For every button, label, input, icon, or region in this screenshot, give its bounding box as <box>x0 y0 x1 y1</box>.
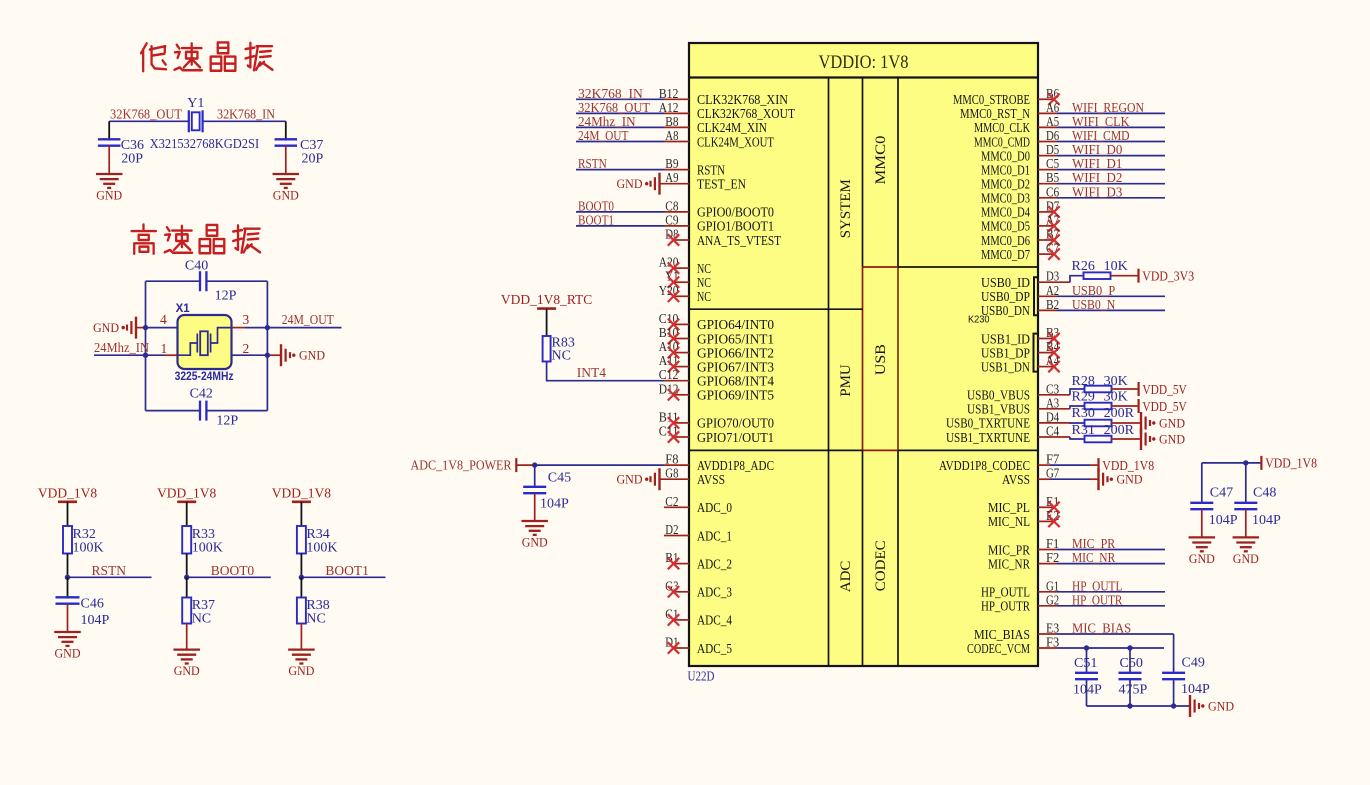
svg-text:C42: C42 <box>190 387 213 402</box>
title text low-speed crystal (Chinese) <box>141 42 272 71</box>
capacitor C37 <box>285 121 287 139</box>
svg-text:TEST_EN: TEST_EN <box>697 177 746 192</box>
wire net WIFI_D0 <box>1057 155 1165 157</box>
svg-text:MMC0_STROBE: MMC0_STROBE <box>953 92 1030 107</box>
pin A7 stub (no connect) <box>1038 225 1054 227</box>
svg-text:MMC0_D1: MMC0_D1 <box>981 162 1030 177</box>
pin B6 stub (no connect) <box>1038 98 1054 100</box>
svg-text:C49: C49 <box>1182 656 1205 671</box>
wire F7 to VDD_1V8 <box>1050 464 1090 466</box>
svg-text:Y1: Y1 <box>187 96 204 111</box>
svg-text:NC: NC <box>697 261 711 276</box>
svg-text:MIC_PL: MIC_PL <box>988 500 1030 515</box>
wire net MIC_NR <box>1057 563 1165 565</box>
ground at R31 <box>1140 428 1142 450</box>
pin D3 stub (USB0_ID) <box>1038 281 1070 283</box>
svg-text:MMC0_D4: MMC0_D4 <box>981 205 1030 220</box>
svg-text:MMC0_CLK: MMC0_CLK <box>974 120 1030 135</box>
pin A8 stub <box>664 141 689 143</box>
svg-text:B8: B8 <box>665 115 678 130</box>
svg-text:GND: GND <box>522 535 548 550</box>
svg-text:3225-24MHz: 3225-24MHz <box>175 371 234 383</box>
pin C6 stub <box>1038 197 1057 199</box>
wire RTC stem <box>546 309 548 336</box>
capacitor C48 <box>1245 463 1247 503</box>
pin B2 stub <box>1038 309 1057 311</box>
pin E1 stub (no connect) <box>1038 506 1054 508</box>
svg-text:WIFI_D1: WIFI_D1 <box>1072 156 1122 171</box>
svg-text:104P: 104P <box>81 613 110 628</box>
svg-text:NC: NC <box>697 275 711 290</box>
pin F8 stub (AVDD1P8_ADC) <box>664 464 689 466</box>
pin A5 stub <box>1038 126 1057 128</box>
svg-text:RSTN: RSTN <box>92 563 127 578</box>
power VDD_5V at R29 <box>1137 399 1139 413</box>
pin A3 stub (R29) <box>1038 408 1070 410</box>
svg-text:C8: C8 <box>665 199 678 214</box>
svg-text:24Mhz_IN: 24Mhz_IN <box>578 114 636 129</box>
svg-text:HP_OUTL: HP_OUTL <box>981 585 1030 600</box>
junction node BOOT0 <box>184 575 189 580</box>
svg-text:VDD_1V8: VDD_1V8 <box>38 485 97 500</box>
power VDD_1V8 at R34 <box>292 500 311 503</box>
svg-text:C9: C9 <box>665 213 678 228</box>
svg-text:GND: GND <box>174 663 200 678</box>
junction at C45 <box>532 462 537 467</box>
wire net WIFI_CMD <box>1057 141 1165 143</box>
pin A20 stub (no connect) <box>673 267 689 269</box>
svg-text:GND: GND <box>93 320 119 335</box>
svg-text:BOOT0: BOOT0 <box>578 198 614 213</box>
svg-text:MMC0_D0: MMC0_D0 <box>981 148 1030 163</box>
svg-text:ADC_4: ADC_4 <box>697 613 732 628</box>
svg-text:CLK24M_XIN: CLK24M_XIN <box>697 120 767 135</box>
svg-text:WIFI_CMD: WIFI_CMD <box>1072 128 1130 143</box>
power VDD_3V3 <box>1137 269 1139 283</box>
junction at C50 top <box>1127 645 1132 650</box>
svg-text:NC: NC <box>697 289 711 304</box>
svg-text:GPIO71/OUT1: GPIO71/OUT1 <box>697 430 774 445</box>
pin F7 stub (AVDD1P8_CODEC) <box>1038 464 1050 466</box>
ground under C36 <box>96 173 123 175</box>
svg-text:MIC_NL: MIC_NL <box>988 514 1030 529</box>
svg-text:GND: GND <box>1189 551 1215 566</box>
pin E2 stub (no connect) <box>1038 520 1054 522</box>
pin G2 stub <box>1038 605 1057 607</box>
resistor R38 NC <box>300 577 302 597</box>
title text high-speed crystal (Chinese) <box>132 224 260 253</box>
svg-text:4: 4 <box>160 312 167 327</box>
resistor R29 <box>1085 403 1112 410</box>
svg-text:GND: GND <box>96 188 122 203</box>
svg-text:USB0_VBUS: USB0_VBUS <box>967 388 1030 403</box>
svg-text:104P: 104P <box>1181 682 1210 697</box>
svg-text:32K768_IN: 32K768_IN <box>578 86 643 101</box>
crystal X1 body <box>178 315 232 369</box>
wire net 24M_OUT <box>576 141 664 143</box>
svg-text:C4: C4 <box>1046 425 1059 440</box>
svg-text:GND: GND <box>299 348 325 363</box>
svg-text:104P: 104P <box>1252 513 1281 528</box>
svg-text:32K768_OUT: 32K768_OUT <box>110 106 183 121</box>
op-amp U22D main IC block body <box>689 43 1038 666</box>
svg-text:GND: GND <box>288 663 314 678</box>
wire R83 to INT4 <box>547 362 548 381</box>
svg-text:R29: R29 <box>1072 390 1095 405</box>
svg-text:GND: GND <box>1159 431 1185 446</box>
svg-text:C40: C40 <box>185 259 208 274</box>
svg-text:24M_OUT: 24M_OUT <box>578 128 629 143</box>
pin D4 stub (R30) <box>1038 422 1070 424</box>
wire stem R34 <box>300 502 302 526</box>
junction node BOOT1 <box>299 575 304 580</box>
resistor R31 <box>1085 436 1112 443</box>
svg-text:C46: C46 <box>81 597 104 612</box>
divider SYSTEM/PMU <box>689 308 863 310</box>
wire right loop vertical <box>266 281 268 410</box>
IC inner column line 2 <box>862 78 864 268</box>
IC inner column line 1 <box>828 78 830 667</box>
svg-text:R28: R28 <box>1072 374 1095 389</box>
pin Y20 stub (no connect) <box>673 295 689 297</box>
pin F3 stub / net CODEC_VCM wire <box>1038 647 1057 649</box>
svg-text:2: 2 <box>243 341 250 356</box>
capacitor C45 <box>534 465 536 487</box>
capacitor C46 <box>67 577 69 597</box>
svg-text:USB0_P: USB0_P <box>1072 283 1115 298</box>
svg-text:GPIO1/BOOT1: GPIO1/BOOT1 <box>697 219 774 234</box>
wire net BOOT0 <box>187 576 271 578</box>
svg-text:100K: 100K <box>306 541 337 556</box>
pin A12 stub <box>664 112 689 114</box>
svg-text:X1: X1 <box>176 303 191 315</box>
svg-text:GND: GND <box>1233 551 1259 566</box>
wire net WIFI_CLK <box>1057 126 1165 128</box>
pin C3 stub (R28) <box>1038 394 1070 396</box>
wire net BOOT0 <box>576 211 664 213</box>
pin B8 stub <box>664 126 689 128</box>
wire net 32K768_OUT (crystal left) <box>109 120 189 122</box>
resistor R28 <box>1085 386 1112 393</box>
junction C49 bottom <box>1171 703 1176 708</box>
divider ADC/CODEC <box>689 449 863 451</box>
svg-text:20P: 20P <box>121 151 143 166</box>
pin B12 stub <box>664 98 689 100</box>
svg-text:ADC_2: ADC_2 <box>697 556 732 571</box>
svg-text:3: 3 <box>243 312 250 327</box>
svg-text:VDD_1V8: VDD_1V8 <box>157 485 216 500</box>
pin C7 stub (no connect) <box>1038 253 1054 255</box>
wire jog R31 <box>1070 437 1085 439</box>
svg-text:ADC_0: ADC_0 <box>697 500 732 515</box>
svg-text:GPIO67/INT3: GPIO67/INT3 <box>697 359 774 374</box>
pin A6 stub <box>1038 112 1057 114</box>
svg-text:1: 1 <box>161 341 168 356</box>
svg-text:RSTN: RSTN <box>697 162 725 177</box>
svg-text:USB1_DP: USB1_DP <box>981 345 1030 360</box>
resistor R33 100K <box>182 526 191 554</box>
wire R31 to GND <box>1111 438 1141 440</box>
svg-text:GPIO70/OUT0: GPIO70/OUT0 <box>697 416 774 431</box>
wire net WIFI_D1 <box>1057 169 1165 171</box>
pin A10 stub (no connect) <box>673 352 689 354</box>
svg-text:PMU: PMU <box>838 364 854 397</box>
svg-text:USB0_TXRTUNE: USB0_TXRTUNE <box>946 416 1030 431</box>
svg-text:VDD_1V8: VDD_1V8 <box>272 485 331 500</box>
svg-text:CLK24M_XOUT: CLK24M_XOUT <box>697 134 775 149</box>
wire MIC_BIAS down to C49 <box>1173 634 1175 673</box>
capacitor C47 <box>1201 463 1203 503</box>
pin B9 stub <box>664 169 689 171</box>
svg-text:100K: 100K <box>73 541 104 556</box>
pin C5 stub <box>1038 169 1057 171</box>
pin B7 stub (no connect) <box>1038 239 1054 241</box>
resistor R37 NC <box>186 577 188 597</box>
svg-text:R30: R30 <box>1072 406 1095 421</box>
svg-text:USB: USB <box>873 344 889 375</box>
wire net WIFI_D2 <box>1057 183 1165 185</box>
pin A4 stub (no connect) <box>1038 366 1054 368</box>
svg-text:MMC0: MMC0 <box>873 136 889 185</box>
ground at VCM rail <box>1189 695 1191 717</box>
power VDD_1V8 at R33 <box>177 500 196 503</box>
pin D2 stub <box>664 535 689 537</box>
power VDD_1V8 at R32 <box>58 500 77 503</box>
ground at pin G8 <box>658 468 660 490</box>
svg-text:WIFI_D0: WIFI_D0 <box>1072 142 1123 157</box>
svg-text:104P: 104P <box>540 497 569 512</box>
svg-text:A9: A9 <box>665 171 678 186</box>
pin C2 stub <box>664 506 689 508</box>
ground under R38 <box>288 648 315 650</box>
svg-text:10K: 10K <box>1104 259 1128 274</box>
wire net MIC_PR <box>1057 549 1165 551</box>
ground at G7 <box>1097 468 1099 490</box>
capacitor C40 <box>199 271 201 291</box>
svg-text:C50: C50 <box>1120 656 1143 671</box>
pin D7 stub (no connect) <box>1038 211 1054 213</box>
svg-text:D2: D2 <box>665 523 678 538</box>
pin C1 stub (no connect) <box>673 619 689 621</box>
svg-text:ADC_5: ADC_5 <box>697 641 732 656</box>
svg-text:GND: GND <box>55 646 81 661</box>
svg-text:24Mhz_IN: 24Mhz_IN <box>94 340 149 355</box>
ground at pin A9 <box>658 173 660 195</box>
pin B3 stub (no connect) <box>1038 338 1054 340</box>
svg-text:20P: 20P <box>302 151 324 166</box>
svg-text:MIC_NR: MIC_NR <box>1072 550 1115 565</box>
svg-text:CLK32K768_XIN: CLK32K768_XIN <box>697 92 788 107</box>
junction pin3/right loop <box>265 325 270 330</box>
svg-text:U22D: U22D <box>688 670 715 685</box>
svg-text:VDD_1V8_RTC: VDD_1V8_RTC <box>501 292 592 307</box>
svg-text:WIFI_D3: WIFI_D3 <box>1072 184 1123 199</box>
svg-text:MIC_PR: MIC_PR <box>1072 536 1115 551</box>
pin A11 stub (no connect) <box>673 366 689 368</box>
svg-text:MMC0_D6: MMC0_D6 <box>981 233 1030 248</box>
svg-text:VDD_5V: VDD_5V <box>1142 382 1187 397</box>
svg-text:USB1_TXRTUNE: USB1_TXRTUNE <box>946 430 1030 445</box>
svg-text:ADC_1: ADC_1 <box>697 528 732 543</box>
wire net HP_OUTL <box>1057 591 1165 593</box>
svg-text:ADC_3: ADC_3 <box>697 585 732 600</box>
svg-text:HP_OUTL: HP_OUTL <box>1072 578 1122 593</box>
junction node RSTN <box>65 575 70 580</box>
wire ground rail under C49/C50/C51 <box>1087 705 1191 707</box>
svg-text:MMC0_D2: MMC0_D2 <box>981 177 1030 192</box>
svg-text:MMC0_D5: MMC0_D5 <box>981 219 1030 234</box>
resistor R34 100K <box>297 526 306 554</box>
svg-text:GND: GND <box>1208 698 1234 713</box>
wire VDD_1V8 to C47/C48 <box>1202 462 1262 464</box>
ground under C48 <box>1233 536 1260 538</box>
svg-text:NC: NC <box>552 349 571 364</box>
capacitor C42 <box>199 401 201 421</box>
svg-text:12P: 12P <box>216 414 238 429</box>
svg-text:CODEC_VCM: CODEC_VCM <box>967 641 1030 656</box>
svg-text:GND: GND <box>1159 415 1185 430</box>
wire net 32K768_OUT <box>576 112 664 114</box>
capacitor C50 <box>1129 648 1131 673</box>
svg-text:GND: GND <box>617 472 643 487</box>
svg-text:AVDD1P8_ADC: AVDD1P8_ADC <box>697 458 774 473</box>
pin D8 stub (no connect) <box>673 239 689 241</box>
svg-text:200R: 200R <box>1104 423 1135 438</box>
wire net RSTN <box>576 169 664 171</box>
svg-text:USB0_DN: USB0_DN <box>981 303 1030 318</box>
svg-text:100K: 100K <box>192 541 223 556</box>
svg-text:GPIO66/INT2: GPIO66/INT2 <box>697 345 774 360</box>
pin C11 stub (no connect) <box>673 436 689 438</box>
wire stem R32 <box>67 502 69 526</box>
wire net 24Mhz_IN <box>576 126 664 128</box>
svg-text:G8: G8 <box>665 467 678 482</box>
svg-text:WIFI_D2: WIFI_D2 <box>1072 170 1122 185</box>
svg-text:24M_OUT: 24M_OUT <box>282 312 335 327</box>
wire net BOOT1 <box>301 576 385 578</box>
wire net HP_OUTR <box>1057 605 1165 607</box>
wire net 32K768_IN (crystal right) <box>203 120 286 122</box>
svg-text:R31: R31 <box>1072 423 1095 438</box>
pin C10 stub (no connect) <box>673 323 689 325</box>
svg-text:WIFI_REGON: WIFI_REGON <box>1072 100 1144 115</box>
svg-text:200R: 200R <box>1104 406 1135 421</box>
svg-text:30K: 30K <box>1104 374 1128 389</box>
wire jog R28 <box>1070 389 1085 395</box>
svg-text:B9: B9 <box>665 157 678 172</box>
pin C12 stub / net INT4 wire <box>664 380 689 382</box>
svg-text:BOOT0: BOOT0 <box>211 563 255 578</box>
pin B4 stub (no connect) <box>1038 352 1054 354</box>
svg-text:ADC: ADC <box>838 561 854 593</box>
svg-text:GPIO69/INT5: GPIO69/INT5 <box>697 388 774 403</box>
svg-text:USB1_VBUS: USB1_VBUS <box>967 402 1030 417</box>
svg-text:D3: D3 <box>1046 270 1059 285</box>
svg-text:WIFI_CLK: WIFI_CLK <box>1072 114 1130 129</box>
wire G7 to GND <box>1050 478 1090 480</box>
wire stem R33 <box>186 502 188 526</box>
pin Y1 stub (no connect) <box>673 281 689 283</box>
svg-text:MMC0_D7: MMC0_D7 <box>981 247 1030 262</box>
pin A2 stub <box>1038 295 1057 297</box>
pin B5 stub <box>1038 183 1057 185</box>
svg-text:GPIO0/BOOT0: GPIO0/BOOT0 <box>697 205 774 220</box>
svg-text:C3: C3 <box>1046 382 1059 397</box>
ground at R30 <box>1140 412 1142 434</box>
svg-text:A3: A3 <box>1046 396 1059 411</box>
capacitor C49 <box>1162 672 1185 674</box>
wire R28 to VDD_5V <box>1111 388 1139 390</box>
wire R30 to GND <box>1111 422 1141 424</box>
wire net 32K768_IN <box>576 98 664 100</box>
junction C48 top <box>1243 460 1248 465</box>
ground under C47 <box>1189 536 1216 538</box>
pin G1 stub <box>1038 591 1057 593</box>
wire net WIFI_D3 <box>1057 197 1165 199</box>
crystal X1 internal symbol <box>196 334 198 353</box>
svg-text:GND: GND <box>1117 472 1143 487</box>
bracket USB0 differential group <box>1034 277 1038 315</box>
svg-text:GND: GND <box>273 188 299 203</box>
svg-text:F8: F8 <box>665 453 678 468</box>
svg-text:ADC_1V8_POWER: ADC_1V8_POWER <box>411 458 512 473</box>
svg-text:A8: A8 <box>665 129 678 144</box>
wire net RSTN <box>68 576 152 578</box>
wire net WIFI_REGON <box>1057 112 1165 114</box>
wire jog R29 <box>1070 406 1085 409</box>
power VDD_1V8 at C47/C48 <box>1260 456 1262 470</box>
svg-text:C48: C48 <box>1253 486 1276 501</box>
svg-text:32K768_OUT: 32K768_OUT <box>578 100 651 115</box>
svg-text:VDD_1V8: VDD_1V8 <box>1265 456 1317 471</box>
svg-text:X321532768KGD2SI: X321532768KGD2SI <box>150 137 260 152</box>
junction pin4/left loop <box>143 325 148 330</box>
wire top loop (C40) <box>146 280 201 282</box>
svg-text:MIC_BIAS: MIC_BIAS <box>1072 621 1131 636</box>
IC inner column line 3 <box>897 78 899 268</box>
ground under C45 <box>521 520 548 522</box>
svg-text:475P: 475P <box>1119 683 1148 698</box>
svg-text:C51: C51 <box>1074 656 1097 671</box>
pin B10 stub (no connect) <box>673 338 689 340</box>
wire net USB0_P <box>1057 295 1165 297</box>
wire R26 to VDD_3V3 <box>1111 275 1139 277</box>
pin E3 stub / net MIC_BIAS <box>1038 633 1057 635</box>
svg-text:C2: C2 <box>665 495 678 510</box>
svg-text:CLK32K768_XOUT: CLK32K768_XOUT <box>697 106 796 121</box>
wire net USB0_N <box>1057 309 1165 311</box>
power VDD_1V8_RTC <box>537 307 556 310</box>
junction pin2/right loop <box>265 353 270 358</box>
pin C8 stub <box>664 211 689 213</box>
IC title VDDIO: 1V8 <box>689 76 1038 78</box>
pin C4 stub (R31) <box>1038 436 1070 438</box>
junction C50 bottom <box>1127 703 1132 708</box>
wire net BOOT1 <box>576 225 664 227</box>
svg-text:VDD_3V3: VDD_3V3 <box>1142 269 1194 284</box>
svg-text:VDD_5V: VDD_5V <box>1142 399 1187 414</box>
svg-text:104P: 104P <box>1209 513 1238 528</box>
svg-text:32K768_IN: 32K768_IN <box>217 106 275 121</box>
svg-text:CODEC: CODEC <box>873 540 889 591</box>
svg-text:USB1_ID: USB1_ID <box>981 331 1030 346</box>
svg-text:AVSS: AVSS <box>697 472 725 487</box>
power VDD_1V8 at F7 <box>1097 458 1099 472</box>
svg-text:SYSTEM: SYSTEM <box>838 179 854 238</box>
resistor R32 100K <box>63 526 72 554</box>
pin F2 stub <box>1038 563 1057 565</box>
svg-text:MIC_BIAS: MIC_BIAS <box>974 627 1030 642</box>
